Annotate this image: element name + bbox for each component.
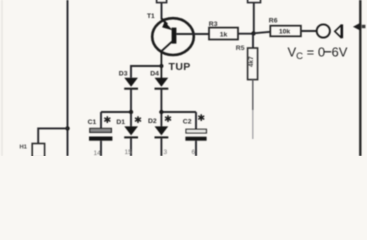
- wire D4 cathode to D2: [160, 89, 162, 127]
- wire C2 branch: [161, 111, 196, 113]
- page edge right dark line: [359, 0, 361, 156]
- wire R5 down (fading): [252, 80, 254, 110]
- svg-text:15: 15: [125, 149, 133, 156]
- wire R6 to terminal: [301, 30, 317, 32]
- wire top box to T1 emitter: [161, 3, 163, 19]
- transistor T1 collector lead: [161, 42, 172, 78]
- diode D2: [155, 126, 169, 135]
- diode D4: [155, 78, 169, 87]
- transistor T1 emitter with arrow: [161, 18, 167, 24]
- wire H1 tap: [38, 128, 67, 143]
- wire D3 cathode to D1: [130, 89, 132, 127]
- transistor T1 base bar: [172, 28, 177, 44]
- lamp H1: [32, 144, 44, 158]
- svg-text:14: 14: [94, 150, 102, 156]
- node collector junction dot: [159, 64, 163, 68]
- svg-text:D1: D1: [116, 119, 125, 126]
- resistor R5: [248, 48, 258, 80]
- node dot D1 top: [129, 110, 133, 114]
- svg-text:6V: 6V: [332, 45, 348, 60]
- diode D1: [124, 126, 138, 135]
- svg-text:TUP: TUP: [169, 61, 191, 73]
- resistor top (cut off) above T1: [157, 0, 167, 3]
- asterisk C1: [104, 116, 110, 123]
- svg-text:1k: 1k: [220, 32, 228, 39]
- wiper arrow symbol: [335, 25, 342, 38]
- svg-text:3: 3: [164, 149, 168, 156]
- asterisk D1: [135, 116, 141, 123]
- wire junction to R5: [252, 34, 254, 49]
- svg-text:R6: R6: [269, 18, 278, 25]
- resistor R6: [270, 26, 301, 37]
- svg-text:R3: R3: [209, 21, 218, 28]
- transistor T1 circle: [152, 18, 194, 55]
- wire C1 branch: [101, 111, 131, 113]
- capacitor C2: [195, 112, 197, 129]
- asterisk C2: [198, 114, 204, 121]
- svg-text:D2: D2: [148, 118, 157, 125]
- terminal circle Vc input: [317, 24, 330, 37]
- diode D3: [124, 78, 138, 87]
- svg-text:VC = 0: VC = 0: [288, 45, 326, 63]
- capacitor C1: [100, 112, 102, 128]
- svg-text:10k: 10k: [279, 29, 291, 36]
- resistor R3: [209, 28, 238, 40]
- svg-text:D3: D3: [119, 71, 128, 78]
- svg-text:R5: R5: [236, 45, 245, 52]
- node junction dot R3/R4/R5/R6: [251, 31, 255, 35]
- asterisk D2: [165, 115, 171, 122]
- svg-text:D4: D4: [150, 71, 159, 78]
- svg-text:6: 6: [192, 149, 196, 156]
- wire junction to R6: [254, 32, 271, 34]
- node junction dot on left rail: [65, 126, 69, 130]
- resistor R4 (cut off) top: [248, 0, 261, 3]
- svg-text:C1: C1: [88, 119, 97, 126]
- scan blob top right: [353, 23, 361, 31]
- svg-text:C2: C2: [183, 119, 192, 126]
- wire collector branch to D3: [131, 66, 161, 78]
- page edge left (faint): [1, 0, 3, 156]
- wire R3 to junction: [238, 33, 253, 35]
- wire R4 to junction: [253, 3, 255, 34]
- svg-text:4k7: 4k7: [248, 56, 255, 67]
- svg-text:H1: H1: [20, 145, 28, 151]
- wire T1 base to R3: [176, 33, 209, 35]
- node dot D2 top: [159, 110, 163, 114]
- wire left vertical rail: [67, 0, 69, 156]
- svg-text:T1: T1: [147, 13, 155, 20]
